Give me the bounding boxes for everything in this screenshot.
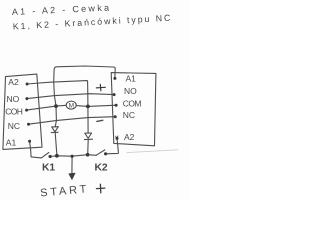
wire D1 to bottom line	[55, 133, 57, 156]
terminal dot A1-right	[113, 77, 116, 80]
svg-text:K1: K1	[42, 163, 55, 174]
wire K2 right up to A2-right	[106, 139, 119, 154]
wire NC-left to NC-right	[29, 117, 116, 125]
junction start	[71, 155, 74, 158]
junction D2 bottom	[86, 153, 90, 157]
switch K2 lever	[96, 150, 105, 155]
terminal dot A2-left	[26, 83, 29, 86]
start arrowhead	[68, 173, 75, 181]
terminal dot A1-left	[28, 140, 31, 143]
junction COM left of motor	[54, 104, 58, 108]
svg-text:K2: K2	[95, 163, 108, 174]
switch K1 lever	[41, 152, 49, 158]
svg-text:COM: COM	[123, 98, 142, 108]
terminal dot COM-right	[115, 104, 118, 107]
plus sign near NO wire	[96, 84, 105, 90]
motor M1	[66, 101, 76, 109]
svg-text:COH: COH	[5, 107, 23, 117]
wire A1-left down to K1	[30, 141, 42, 158]
wire COM junction down to D1	[55, 106, 56, 127]
svg-text:M: M	[69, 102, 74, 109]
start arrow stem	[71, 156, 73, 174]
svg-text:A1: A1	[126, 73, 137, 83]
svg-text:A1 - A2 - Cewka: A1 - A2 - Cewka	[12, 2, 112, 17]
diode D1	[52, 127, 59, 132]
svg-text:START: START	[40, 183, 90, 199]
terminal dot NC-left	[27, 123, 30, 126]
faint stray line bottom right	[127, 150, 178, 153]
bottom wire K1 to K2	[50, 155, 96, 157]
terminal dot A2-right	[116, 137, 119, 140]
wire top link: COM junction up and over to A1-right	[54, 66, 116, 106]
svg-text:A2: A2	[124, 132, 135, 142]
diode D2	[85, 133, 92, 138]
wire NO-left to NO-right	[27, 94, 114, 99]
wire COM-left to motor to COM-right	[27, 105, 117, 110]
svg-text:A1: A1	[6, 137, 17, 147]
junction K1 right	[49, 155, 52, 158]
plus sign near START	[96, 184, 105, 193]
svg-text:NC: NC	[123, 110, 135, 120]
terminal dot COM-left	[25, 109, 28, 112]
terminal dot NO-left	[25, 97, 28, 100]
svg-text:NO: NO	[7, 94, 20, 104]
junction D1 bottom	[55, 154, 59, 158]
svg-text:NC: NC	[8, 121, 20, 131]
svg-text:NO: NO	[124, 86, 137, 96]
terminal dot NC-right	[114, 115, 117, 118]
terminal dot NO-right	[113, 93, 116, 96]
wire D2 to bottom line	[87, 140, 90, 155]
wire A2-left to top of D2 branch	[27, 81, 88, 134]
minus sign	[97, 120, 103, 121]
relay right box	[111, 73, 156, 146]
junction COM right of motor	[86, 105, 90, 109]
relay left box	[3, 74, 42, 149]
junction K2 right	[104, 152, 107, 155]
svg-text:A2: A2	[8, 77, 19, 87]
